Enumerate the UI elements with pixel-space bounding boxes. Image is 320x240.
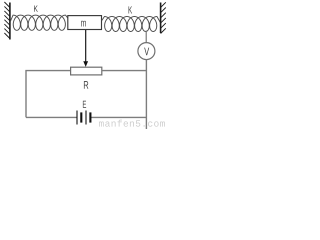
label E [83,101,86,108]
wall right [161,2,166,33]
spring K2 [102,17,161,32]
battery E plates [77,111,90,125]
bottom wire left segment [26,116,77,118]
wire resistor to right vertical [102,70,147,72]
label K2 [129,6,133,13]
label K1 [34,5,38,11]
mass m box [68,16,102,30]
watermark [99,120,165,127]
label m [81,21,86,27]
spring K1 [10,15,68,30]
wire voltmeter down to bottom edge [145,60,147,129]
bottom wire right segment [90,116,146,118]
wiper arrow from mass [85,30,87,63]
wire spring to voltmeter [145,31,147,43]
label R [84,81,88,89]
wire left loop: left vertical and top horizontal [26,71,71,118]
voltmeter V [138,43,155,60]
resistor R box [71,67,102,75]
wall left [4,2,9,40]
